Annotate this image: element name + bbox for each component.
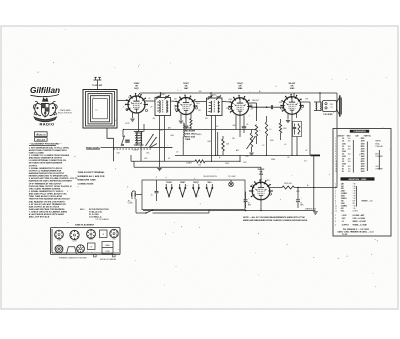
svg-text:14B6: 14B6 [238,87,243,90]
svg-text:150: 150 [198,164,201,166]
svg-text:SPKR FLD: SPKR FLD [284,183,293,185]
svg-text:12SA7: 12SA7 [134,82,140,85]
svg-text:3.3: 3.3 [216,126,218,128]
svg-text:100: 100 [199,91,202,93]
svg-text:12-360: 12-360 [133,150,138,152]
svg-text:MAXIMUM DEFLECTION ON OUTPUT: MAXIMUM DEFLECTION ON OUTPUT [29,172,65,175]
svg-text:.1: .1 [254,130,255,132]
svg-text:4. ADJUST ANT. TRIM VOLUME CO: 4. ADJUST ANT. TRIM VOLUME CONTROL, VOL … [29,177,78,180]
svg-text:CO A REQ.L.A.: CO A REQ.L.A. [89,216,102,219]
svg-text:400: 400 [348,159,351,161]
svg-text:3-30: 3-30 [117,153,120,155]
svg-text:2: 2 [335,141,336,143]
svg-text:SPEAKER & GANG BOTTOM VIEW: SPEAKER & GANG BOTTOM VIEW [59,257,87,260]
svg-text:.05: .05 [246,124,248,126]
svg-text:2: 2 [335,218,336,220]
svg-text:2: 2 [335,186,336,188]
svg-text:455KC—G-10347: 455KC—G-10347 [353,220,367,223]
svg-text:Gilfillan: Gilfillan [30,86,60,95]
svg-text:5: 5 [335,148,336,150]
svg-text:MODEL 56: MODEL 56 [36,134,45,136]
svg-text:NO.1 :: NO.1 : [80,209,86,211]
svg-text:14Q7: 14Q7 [134,87,139,90]
svg-text:12SA7: 12SA7 [166,181,172,184]
svg-text:.02: .02 [284,144,286,146]
svg-text:G-7: G-7 [304,161,307,163]
svg-text:10MEG: 10MEG [196,134,202,136]
svg-text:.0001: .0001 [228,99,232,101]
svg-text:OT: OT [90,246,92,248]
svg-text:IF: IF [102,234,104,236]
svg-text:AND LOOP IN PLACE.: AND LOOP IN PLACE. [29,216,50,219]
svg-text:20: 20 [300,203,302,205]
svg-text:TUBE: TUBE [185,139,191,141]
svg-text:RADIO: RADIO [39,121,54,126]
svg-text:LOOP: LOOP [125,123,129,125]
svg-text:12: 12 [335,210,337,212]
svg-text:400: 400 [348,166,351,168]
svg-text:2.2: 2.2 [262,145,264,147]
svg-text:MAX OUTPUT. AT 600 KC ROCK: MAX OUTPUT. AT 600 KC ROCK [29,205,60,208]
svg-text:MADE AND MEASURED FROM CHASSIS: MADE AND MEASURED FROM CHASSIS COMMON GR… [243,219,308,222]
svg-text:RESISTORS – OHMS: RESISTORS – OHMS [349,179,368,181]
svg-text:400: 400 [348,146,351,148]
svg-text:METER/CONNECTED TO SPEAKER CIR: METER/CONNECTED TO SPEAKER CIRC. [29,175,69,178]
svg-text:455KC: 455KC [160,94,166,96]
svg-text:1: 1 [335,138,336,140]
svg-text:4: 4 [335,146,336,148]
svg-text:—10%: —10% [368,200,373,202]
svg-text:8: 8 [335,200,336,202]
svg-text:L1: L1 [96,110,98,112]
svg-text:TUBE PLACEMENT: TUBE PLACEMENT [75,223,95,226]
svg-text:150: 150 [348,171,351,173]
svg-text:+: + [248,198,249,200]
svg-text:.02: .02 [305,150,307,152]
svg-text:MAXIMUM ON GANG, REPEAT ADJUST: MAXIMUM ON GANG, REPEAT ADJUSTMENT [29,180,73,183]
svg-text:50-30: 50-30 [225,163,229,165]
svg-text:CONT'L: CONT'L [353,210,359,212]
svg-text:20: 20 [342,171,344,173]
svg-text:P.M. SPKR: P.M. SPKR [324,114,334,116]
svg-text:A LAST MINOR ADJUST WITH GANG: A LAST MINOR ADJUST WITH GANG [29,213,65,216]
svg-text:100: 100 [174,99,177,101]
svg-text:3: 3 [335,143,336,145]
svg-text:14A7: 14A7 [184,87,189,90]
svg-text:9: 9 [335,203,336,205]
svg-text:150: 150 [348,169,351,171]
svg-text:.05: .05 [151,195,153,197]
svg-text:3.2: 3.2 [330,107,332,109]
svg-text:10: 10 [270,129,272,131]
svg-text:1: 1 [335,183,336,185]
svg-text:5. SIGNAL GENERATOR TO 1620 K: 5. SIGNAL GENERATOR TO 1620 KC [29,190,64,193]
svg-text:CONDENSERS: CONDENSERS [353,131,366,133]
svg-text:3.3MEG: 3.3MEG [186,163,193,165]
svg-text:CONNECTIONS: CONNECTIONS [78,183,94,185]
svg-text:200: 200 [348,148,351,150]
svg-text:455: 455 [153,118,156,120]
svg-text:VOL.: VOL. [341,210,345,212]
svg-text:TRIM. THEN ADJUST OSCILLATOR: TRIM. THEN ADJUST OSCILLATOR [29,195,63,198]
svg-text:2-17: 2-17 [160,130,163,132]
svg-text:MODEL 56 CHASSIS: MODEL 56 CHASSIS [100,258,117,261]
svg-text:NOTE — ALL DC VOLTAGE MEASUREM: NOTE — ALL DC VOLTAGE MEASUREMENTS MADE … [243,216,305,219]
svg-text:3. SIGNAL GENERATOR TO 455 KC: 3. SIGNAL GENERATOR TO 455 KC. [29,167,64,170]
svg-text:TRIM FOR THE MAXIMUM DEFLECTIO: TRIM FOR THE MAXIMUM DEFLECTION AT [29,198,71,201]
svg-text:8: 8 [335,156,336,158]
svg-text:GANG CLOSED.: GANG CLOSED. [29,151,45,154]
svg-text:6: 6 [335,196,336,198]
svg-text:DIAL READING ON THE LOW POINTS: DIAL READING ON THE LOW POINTS. [29,200,66,203]
svg-text:40: 40 [248,203,250,205]
svg-text:400: 400 [348,141,351,143]
svg-text:455: 455 [205,118,208,120]
svg-text:3: 3 [335,221,336,223]
svg-text:COIL—G-10346: COIL—G-10346 [353,217,365,220]
svg-text:1: 1 [335,215,336,217]
svg-text:7: 7 [335,198,336,200]
svg-text:200: 200 [348,161,351,163]
svg-text:.0001: .0001 [170,135,174,137]
svg-text:TO EXT. ANT.: TO EXT. ANT. [92,84,103,87]
svg-text:A,B,C,D,E: A,B,C,D,E [37,138,46,141]
svg-text:+: + [301,198,302,200]
svg-text:.05: .05 [287,157,289,159]
svg-text:.0001: .0001 [232,125,236,127]
svg-text:12: 12 [335,166,337,168]
svg-text:12SK7: 12SK7 [180,182,186,184]
svg-text:NUMBERS AS ☉ ARE FOR: NUMBERS AS ☉ ARE FOR [78,175,105,178]
svg-text:B+: B+ [259,91,261,93]
svg-text:GANG AND RE-PEAK FOR MAXIMUM.: GANG AND RE-PEAK FOR MAXIMUM. [29,208,65,211]
svg-text:11: 11 [335,208,337,210]
svg-text:OUTPUT: OUTPUT [342,224,350,226]
svg-text:50A5: 50A5 [290,87,295,90]
svg-text:6. AT 1400 KC ADJ ANT TRIMMER: 6. AT 1400 KC ADJ ANT TRIMMER FOR [29,203,66,206]
svg-text:VOL.: VOL. [246,156,250,158]
svg-text:BROS. EXPORTS: BROS. EXPORTS [58,113,73,115]
svg-text:LOOP: LOOP [342,215,348,217]
svg-text:12SQ7: 12SQ7 [89,239,93,241]
svg-text:B+: B+ [307,185,309,187]
svg-text:TUBE SOCKET TERMINAL: TUBE SOCKET TERMINAL [78,171,106,174]
svg-text:G-10345—ANT.: G-10345—ANT. [353,214,366,217]
svg-text:WITH 35Z5: WITH 35Z5 [185,136,196,138]
svg-text:SET RADIO WITH SERVICE/METER: SET RADIO WITH SERVICE/METER [29,162,63,165]
svg-text:35W4: 35W4 [271,159,275,161]
svg-text:.0002: .0002 [207,141,211,143]
svg-text:6.3: 6.3 [168,158,170,160]
svg-text:4: 4 [335,191,336,193]
svg-text:P.M. SPEAKER 4″ — G-P-12052: P.M. SPEAKER 4″ — G-P-12052 [343,228,369,231]
svg-text:11: 11 [335,164,337,166]
svg-text:THE 2 GANG TRIMMER SCREWS.: THE 2 GANG TRIMMER SCREWS. [29,187,61,190]
svg-text:12SQ7: 12SQ7 [193,182,199,184]
svg-text:OUT: OUT [305,99,308,101]
svg-text:3: 3 [335,188,336,190]
svg-text:ON-OFF SWITCH: ON-OFF SWITCH [203,176,217,178]
svg-text:LO-SIDE EXTERNAL CONNECTION ON: LO-SIDE EXTERNAL CONNECTION ON. [29,159,67,162]
svg-text:AND GANG FULLY OPEN. ADJUST OS: AND GANG FULLY OPEN. ADJUST OSC. [29,193,68,196]
svg-text:1. SET GENERATOR DIAL TO FULL: 1. SET GENERATOR DIAL TO FULL OPEN, [29,146,70,149]
svg-text:OUTPUT LO TRANSFORMER FOR: OUTPUT LO TRANSFORMER FOR [29,169,62,172]
svg-text:4: 4 [335,224,336,226]
svg-text:455KC: 455KC [212,95,218,97]
svg-text:13: 13 [335,169,337,171]
svg-text:40: 40 [342,168,344,171]
svg-text:2. CONNECT A 'LO-MMFD FROM CH: 2. CONNECT A 'LO-MMFD FROM CHASSIS [29,154,70,157]
svg-text:10: 10 [335,205,337,207]
svg-text:7: 7 [335,153,336,155]
svg-text:TRANS—G-10348: TRANS—G-10348 [353,223,367,226]
svg-text:RECEIVER: RECEIVER [185,130,196,132]
svg-text:MINIATURE TUBE: MINIATURE TUBE [78,179,97,182]
svg-text:OSC.: OSC. [146,153,150,155]
svg-text:.05: .05 [148,98,150,100]
svg-text:200: 200 [348,138,351,140]
svg-text:50L6: 50L6 [113,239,116,241]
svg-text:9: 9 [335,159,336,161]
svg-text:12SK7: 12SK7 [72,240,76,242]
svg-text:220K: 220K [283,128,287,130]
svg-text:2ND DET: 2ND DET [252,100,259,102]
svg-text:50L6: 50L6 [207,182,211,184]
svg-text:.05: .05 [176,152,178,154]
svg-text:G1: G1 [128,97,130,99]
svg-text:ADJUST DIAL POINTER TO READ WI: ADJUST DIAL POINTER TO READ WITH [29,149,67,152]
svg-text:5: 5 [335,193,336,195]
svg-text:CORD: CORD [128,203,134,205]
svg-text:7. CHECK CIRCUITS IN CABINET,: 7. CHECK CIRCUITS IN CABINET, MAKE [29,211,68,214]
svg-text:200: 200 [348,153,351,155]
svg-text:6: 6 [335,151,336,153]
svg-text:.5: .5 [259,130,260,132]
svg-text:PI. LIGHT: PI. LIGHT [228,176,236,178]
svg-text:10: 10 [335,161,337,163]
svg-text:P.M.: P.M. [330,104,334,106]
svg-text:14: 14 [335,171,337,173]
svg-text:OF IF TRIMMERS AT THE OUTPUT: OF IF TRIMMERS AT THE OUTPUT [29,182,62,185]
svg-text:1200: 1200 [296,191,300,193]
svg-text:AND RADIO GENERATOR OUTPUT: AND RADIO GENERATOR OUTPUT [29,157,63,160]
svg-text:POINT AS FINAL OUTPUT LEVEL PL: POINT AS FINAL OUTPUT LEVEL PLACES, IF [29,185,73,188]
svg-text:35C5A: 35C5A [185,126,192,129]
